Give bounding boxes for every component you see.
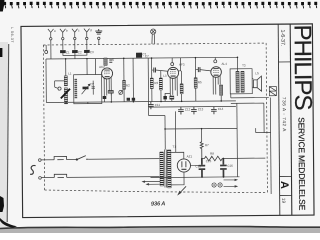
svg-text:C14: C14	[218, 107, 224, 111]
wire antenna A4 down	[86, 40, 88, 50]
rectifier V4 filament	[181, 168, 186, 170]
svg-text:R8: R8	[210, 152, 214, 156]
wire step vertical	[164, 115, 166, 128]
capacitor C14	[211, 107, 217, 115]
capacitor C7 on bus	[136, 53, 142, 58]
svg-text:P: P	[128, 98, 130, 102]
wire earth down	[98, 40, 100, 45]
svg-text:SERVICE MEDDELELSE: SERVICE MEDDELELSE	[296, 117, 307, 210]
resistor R8	[204, 156, 222, 161]
heater arrow diagonal	[178, 186, 186, 194]
svg-text:1-6-37.: 1-6-37.	[279, 29, 285, 46]
switch contact dot	[76, 159, 78, 161]
band switch terminal	[58, 87, 61, 90]
left margin gray strip	[0, 42, 8, 228]
wire dial lamp leads	[152, 34, 155, 44]
capacitor C5	[127, 98, 130, 101]
wire V2 cathode bus	[165, 93, 172, 101]
wire V1 leads	[104, 77, 111, 96]
wire switch to transformer	[88, 158, 159, 161]
band switch lever	[61, 89, 70, 99]
wire cap bus join	[63, 53, 87, 59]
chassis dashed boundary top	[43, 43, 266, 45]
wire column R2	[123, 58, 125, 101]
wire speaker feed right	[256, 128, 271, 133]
wire V2 grid column	[151, 58, 153, 101]
earth terminal	[98, 37, 100, 39]
wire R6 down	[220, 95, 222, 100]
resistor R9	[180, 84, 183, 94]
wire B plus column	[201, 129, 203, 142]
filter capacitor C15	[199, 159, 206, 178]
AC source symbol	[30, 165, 36, 174]
oscillator box	[74, 75, 102, 104]
svg-text:C15: C15	[195, 164, 201, 168]
resistor R1	[108, 90, 113, 93]
bottom-left page corner curl	[0, 218, 17, 228]
wire main mid bus	[46, 101, 235, 103]
filter capacitor C16	[220, 158, 227, 177]
wire B plus down	[236, 103, 239, 176]
wire V1 cathode to bus	[104, 93, 111, 102]
wire AC upper	[41, 159, 54, 161]
fuse F1	[54, 156, 66, 159]
capacitor C1	[60, 50, 66, 53]
wire heater tap vertical	[174, 111, 176, 152]
capacitor C2	[72, 50, 78, 53]
resistor R6	[219, 85, 222, 96]
tube V3 envelope	[211, 67, 222, 78]
wire L3	[160, 71, 162, 101]
wire antenna A2 down	[62, 40, 64, 50]
wire speaker lines	[231, 94, 269, 133]
tube V2 envelope	[168, 67, 179, 78]
tube V1 anode	[104, 69, 109, 71]
antenna A3 terminal	[74, 37, 76, 39]
resistor R4	[170, 96, 174, 99]
tube V1 cathode	[105, 76, 110, 78]
svg-text:R3: R3	[154, 81, 158, 85]
tuning coil L1	[64, 76, 67, 86]
resistor R3	[150, 78, 153, 89]
wire V3 top cap lead	[214, 58, 216, 60]
svg-text:T3: T3	[242, 63, 246, 67]
wire F2 to transformer	[67, 176, 160, 179]
capacitor C3	[84, 50, 90, 53]
wire heater lower	[171, 172, 184, 185]
wire column C6	[132, 58, 134, 101]
connector block	[269, 86, 276, 95]
svg-text:AZ1: AZ1	[187, 154, 193, 158]
tube V3 anode	[213, 68, 218, 70]
pickup jack J1 dot	[213, 184, 214, 185]
wire box feeds	[87, 59, 96, 75]
title block left border	[278, 24, 280, 215]
output transformer box	[230, 69, 252, 94]
wire rectifier output	[190, 159, 201, 166]
revision cell bottom line	[280, 194, 292, 196]
pickup jack J2 dot	[219, 184, 220, 185]
svg-text:C1: C1	[66, 51, 70, 55]
wire V3 grid column	[194, 58, 196, 101]
svg-text:L1: L1	[68, 72, 72, 76]
tube V3 top cap	[214, 60, 217, 63]
wire switch branch	[55, 81, 65, 88]
AC terminal upper	[39, 159, 42, 162]
wire C8 to V2	[152, 70, 168, 71]
svg-text:AL4: AL4	[221, 62, 227, 66]
wire antenna A1 down	[50, 40, 52, 59]
wire AVC rail	[149, 105, 236, 108]
chassis dashed boundary right	[266, 43, 267, 192]
wire C10 to V3	[196, 70, 211, 71]
fuse F2	[54, 174, 66, 177]
trimmer capacitor	[91, 81, 95, 95]
left edge black mark lower	[0, 196, 4, 212]
svg-text:L 56-37: L 56-37	[10, 27, 15, 43]
wire transformer top feed	[164, 129, 166, 149]
resistor R2	[123, 80, 126, 89]
bottom gray strip	[0, 227, 320, 234]
dial lamp cross	[152, 30, 155, 33]
tube V3 cathode	[214, 74, 219, 76]
power switch S1	[77, 156, 89, 160]
wire terminal stub	[45, 45, 47, 50]
capacitor C6	[132, 98, 135, 101]
tube V2 grid	[170, 71, 176, 73]
resistor R7	[200, 142, 203, 159]
left page edge line	[7, 44, 9, 222]
AC terminal lower	[39, 177, 42, 180]
tube V1 envelope	[102, 68, 113, 79]
wire HT to rectifier	[171, 152, 184, 159]
revision cell top line	[279, 175, 291, 177]
capacitor C13	[191, 107, 197, 115]
oscillator coil L3	[159, 78, 162, 90]
tuning coil L2	[64, 88, 67, 104]
dial lamp	[151, 29, 156, 34]
ground bus	[151, 176, 240, 179]
antenna A1	[48, 29, 54, 38]
earth electrode symbol	[95, 29, 102, 34]
wire V2 plate coupling	[178, 58, 180, 71]
svg-text:R2: R2	[126, 84, 130, 88]
wire AC lower	[41, 177, 54, 179]
wire jack arrows	[224, 179, 238, 187]
wire speaker links	[252, 79, 253, 88]
wire connector vertical	[269, 98, 272, 194]
terminal on chassis left	[45, 50, 48, 53]
capacitor C12	[178, 107, 184, 115]
oscillator coil hatch	[74, 79, 77, 99]
svg-text:AF3: AF3	[179, 63, 185, 67]
svg-text:A: A	[278, 181, 290, 189]
power transformer core	[165, 149, 167, 187]
capacitor C4	[103, 96, 107, 99]
power transformer primary	[160, 152, 164, 186]
date cell divider	[278, 61, 290, 63]
svg-text:736 A - 742 A: 736 A - 742 A	[282, 97, 287, 132]
svg-text:R7: R7	[205, 143, 209, 147]
svg-text:C12: C12	[185, 107, 191, 111]
IF trimmer cap	[109, 60, 112, 62]
wire heater arrows left	[143, 181, 161, 186]
svg-text:C2: C2	[78, 50, 82, 54]
capacitor C10	[198, 67, 200, 72]
loudspeaker	[253, 76, 261, 91]
svg-text:CV: CV	[90, 82, 94, 86]
svg-text:C7: C7	[145, 54, 149, 58]
svg-text:R5: R5	[198, 80, 202, 84]
antenna A2	[60, 29, 66, 38]
svg-text:AK2: AK2	[99, 65, 105, 69]
tube V3 grid	[213, 70, 219, 72]
wire B plus step	[165, 127, 237, 130]
antenna A3	[72, 29, 78, 38]
wire V3 leads	[213, 75, 220, 94]
wire V2 top cap lead	[171, 58, 173, 63]
title block column divider	[290, 24, 292, 215]
svg-text:C3: C3	[90, 50, 94, 54]
antenna A4 terminal	[86, 37, 88, 39]
pickup jack J2	[218, 183, 222, 187]
wire R8 junction	[202, 157, 265, 160]
resistor R5	[194, 78, 197, 89]
capacitor C8	[154, 68, 156, 73]
wire box to mid bus	[87, 102, 89, 103]
capacitor C9	[163, 96, 167, 99]
variable capacitor CV	[83, 87, 89, 90]
wire coil bottom	[65, 102, 67, 103]
wire lamp column	[147, 58, 149, 101]
left edge black mark upper	[0, 48, 2, 57]
antenna A2 terminal	[62, 37, 64, 39]
tiny value labels	[54, 25, 261, 171]
wire antenna A3 down	[74, 40, 76, 50]
svg-text:L3: L3	[163, 74, 167, 78]
svg-text:C15: C15	[206, 159, 212, 163]
tube V1 grid	[104, 72, 110, 74]
wire V2 leads	[170, 76, 177, 96]
wire rail drop	[148, 102, 150, 116]
pickup jack J1	[212, 183, 216, 187]
svg-text:S: S	[112, 58, 114, 62]
binding teeth row	[3, 2, 317, 9]
bottom page edge wavy line	[0, 226, 320, 228]
wire R9 leads	[180, 71, 182, 101]
output transformer secondary	[241, 71, 244, 92]
wire fuse to switch	[67, 159, 77, 161]
wire left vertical	[45, 59, 47, 102]
svg-text:C16: C16	[227, 164, 233, 168]
svg-text:936 A: 936 A	[151, 201, 166, 207]
antenna A1 terminal	[50, 38, 52, 40]
svg-text:LS: LS	[255, 71, 259, 75]
svg-text:PHILIPS: PHILIPS	[288, 24, 316, 110]
tube V2 cathode	[171, 75, 176, 77]
wire main top bus	[46, 57, 237, 59]
chassis dashed boundary bottom	[45, 188, 268, 194]
power transformer secondary	[167, 150, 171, 188]
volume control arrow	[119, 90, 123, 95]
wire plate to output transformer	[236, 57, 238, 71]
antenna A4	[84, 29, 90, 38]
top-left corner blob	[0, 0, 5, 12]
volume control	[119, 90, 123, 94]
wire coil top	[65, 59, 67, 76]
outer frame	[21, 24, 314, 218]
IF transformer T2	[104, 58, 107, 65]
svg-text:19: 19	[281, 198, 286, 204]
rectifier V4 anode	[182, 161, 186, 167]
variable capacitor arrow	[81, 84, 89, 94]
wire short rail	[149, 114, 165, 116]
tube V2 top cap	[171, 63, 174, 66]
output transformer primary	[236, 71, 239, 92]
svg-text:T1: T1	[172, 145, 176, 149]
capacitor C11	[148, 102, 154, 110]
svg-text:C13: C13	[198, 107, 204, 111]
chassis dashed boundary left	[43, 45, 44, 190]
tube V2 anode	[170, 68, 175, 70]
rectifier V4 envelope	[177, 159, 190, 172]
svg-text:C11: C11	[155, 103, 161, 107]
